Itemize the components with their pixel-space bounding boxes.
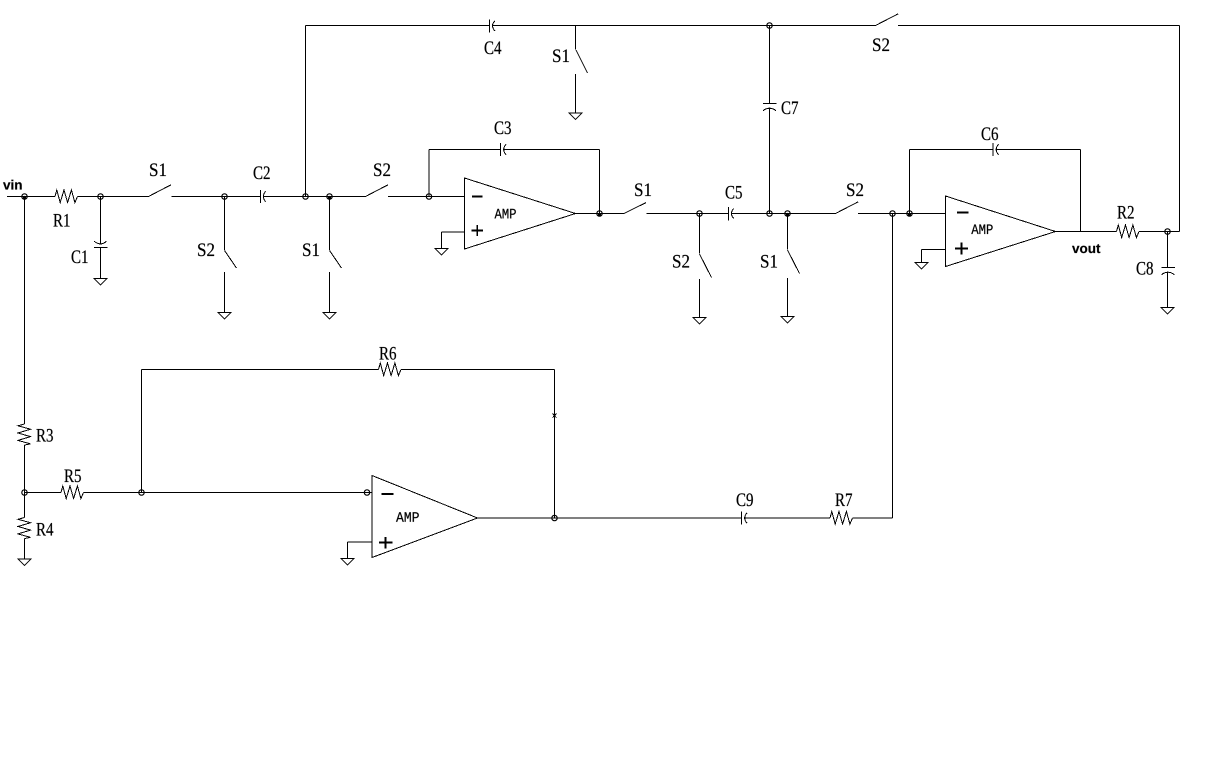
switch S2 (top) xyxy=(876,14,899,26)
U3 AMP label xyxy=(396,512,419,522)
U1 AMP label xyxy=(495,209,516,219)
resistor R1 xyxy=(55,190,78,203)
capacitor C7 xyxy=(763,104,777,111)
label R5 xyxy=(64,470,80,483)
ground (R4) xyxy=(18,559,31,566)
wire C2 to S2 series xyxy=(263,196,365,198)
ground (S2 shunt mid) xyxy=(693,318,706,325)
label C9 xyxy=(737,493,753,506)
ground (C8) xyxy=(1161,308,1174,315)
wire C3 feedback left xyxy=(429,149,501,151)
label C1 xyxy=(72,250,88,263)
resistor R2 xyxy=(1117,225,1140,238)
wire right-side drop to output xyxy=(1179,26,1181,232)
node S1 shunt junction xyxy=(327,194,332,199)
label S1 (shunt mid) xyxy=(761,255,777,268)
ground (C1) xyxy=(94,279,107,286)
wire node to R4 xyxy=(24,493,26,518)
node S1 shunt junction (mid) xyxy=(785,211,790,216)
node amp2 inverting input xyxy=(907,211,912,216)
label C6 xyxy=(982,127,998,140)
node S2 shunt junction (mid) xyxy=(697,211,702,216)
label R3 xyxy=(36,429,52,442)
node amp3 inverting input xyxy=(364,490,369,495)
node U3 output / R6 drop junction xyxy=(552,515,557,520)
switch S2 (shunt) xyxy=(225,197,237,313)
op-amp U3 xyxy=(372,476,478,558)
wire top rail right segment xyxy=(898,25,1180,27)
op-amp U1 xyxy=(465,178,576,249)
wire top rail middle segment xyxy=(493,25,876,27)
wire S2 to amp1 input xyxy=(388,196,465,198)
wire S1 to C2 xyxy=(172,196,261,198)
ground (S1 shunt mid) xyxy=(781,317,794,324)
wire vin drop to R3 xyxy=(24,197,26,425)
wire R6 rail right xyxy=(401,369,555,371)
wire R3 to node xyxy=(24,445,26,493)
node R6 riser junction xyxy=(139,490,144,495)
wire R6 rail left xyxy=(142,369,379,371)
label C5 xyxy=(726,186,742,199)
wire C7 upper stub xyxy=(769,26,771,104)
U3 plus sign xyxy=(379,537,393,549)
capacitor C8 xyxy=(1162,268,1176,275)
wire R6 riser xyxy=(141,370,143,493)
node amp1 inverting input xyxy=(426,194,431,199)
label C3 xyxy=(495,121,511,134)
switch S2 (shunt mid) xyxy=(700,214,712,318)
node A (top rail junction) xyxy=(303,194,308,199)
capacitor C8 stub xyxy=(1167,232,1169,268)
node vin xyxy=(22,194,27,199)
capacitor C1 xyxy=(94,241,108,247)
label R4 xyxy=(36,523,53,536)
U1 minus sign xyxy=(472,196,483,198)
label C2 xyxy=(254,166,270,179)
wire C3 feedback right xyxy=(504,149,600,151)
wire node to R5 xyxy=(25,492,62,494)
node R3/R4/R5 junction xyxy=(22,490,27,495)
capacitor C6 xyxy=(993,143,999,156)
wire R7 riser to main xyxy=(892,214,894,519)
wire R5 to amp3 xyxy=(84,492,373,494)
node S2 shunt junction xyxy=(222,194,227,199)
label S1 (series after amp1) xyxy=(635,183,651,196)
switch S1 (shunt) xyxy=(330,197,342,313)
node U1 output xyxy=(597,211,602,216)
label S2 (shunt) xyxy=(198,243,214,256)
ground (U2 +) xyxy=(915,263,928,270)
capacitor C4 xyxy=(490,20,495,33)
label C7 xyxy=(782,101,798,114)
label vin xyxy=(3,180,22,190)
node R7 riser junction xyxy=(890,211,895,216)
wire C9 to R7 xyxy=(745,517,830,519)
switch S1 (series, input) xyxy=(149,185,172,197)
wire R1 to S1 xyxy=(78,196,149,198)
node C7 junction xyxy=(767,211,772,216)
label R7 xyxy=(835,494,852,506)
label C8 xyxy=(1137,262,1153,275)
resistor R5 xyxy=(61,486,84,499)
label S2 (series) xyxy=(374,163,390,176)
node vout/C8 junction xyxy=(1165,229,1170,234)
U2 AMP label xyxy=(971,224,992,234)
wire U2 output xyxy=(1056,231,1117,233)
label S1 (top switch) xyxy=(553,49,569,62)
wire C6 feedback drop xyxy=(1080,150,1082,232)
U1 plus sign xyxy=(472,225,484,236)
label S1 (shunt) xyxy=(303,243,319,256)
switch S2 (series, before amp1) xyxy=(366,185,389,197)
ground (U3 +) xyxy=(341,559,354,566)
wire U1 noninverting input xyxy=(442,232,465,249)
wire R7 to riser xyxy=(853,517,893,519)
capacitor C2 xyxy=(261,190,266,203)
label C4 xyxy=(485,41,502,54)
wire C1 to ground xyxy=(100,248,102,279)
wire C6 feedback left xyxy=(910,149,994,151)
wire C7 lower stub xyxy=(769,108,771,213)
U2 plus sign xyxy=(955,243,968,255)
label R1 xyxy=(53,214,69,227)
switch S2 (series, before amp2) xyxy=(836,202,859,214)
capacitor C1 stub xyxy=(100,197,102,244)
switch S1 (hanging from top rail) xyxy=(576,26,588,114)
resistor R4 xyxy=(18,518,31,539)
wire top-rail riser to node A xyxy=(305,26,307,197)
wire C5 to S2 series xyxy=(732,213,836,215)
label S2 (shunt mid) xyxy=(673,255,689,268)
label S1 (series input) xyxy=(150,163,166,176)
wire R2 to right drop xyxy=(1139,231,1180,233)
wire U3 output xyxy=(478,517,742,519)
node top-rail/C7 junction xyxy=(767,23,772,28)
node R6 drop marker xyxy=(553,413,557,419)
switch S1 (shunt mid) xyxy=(788,214,800,317)
label vout xyxy=(1072,244,1100,253)
U3 minus sign xyxy=(382,493,394,495)
resistor R6 xyxy=(379,363,402,376)
wire U1 output xyxy=(576,213,625,215)
ground (S1 shunt) xyxy=(323,313,336,320)
label R6 xyxy=(379,347,396,360)
ground (below top S1) xyxy=(569,113,582,120)
wire C6 feedback riser xyxy=(909,150,911,214)
wire R4 to ground xyxy=(24,539,26,560)
capacitor C9 xyxy=(742,512,748,525)
wire S2 to amp2 input xyxy=(858,213,946,215)
switch S1 (series, after amp1) xyxy=(624,203,646,214)
capacitor C3 xyxy=(501,143,507,156)
capacitor C5 xyxy=(729,207,734,221)
wire C3 feedback riser xyxy=(428,150,430,197)
wire C8 to ground xyxy=(1167,272,1169,307)
ground (S2 shunt) xyxy=(218,313,231,320)
wire U2 noninverting input xyxy=(922,250,946,263)
wire C6 feedback right xyxy=(996,149,1080,151)
ground (U1 +) xyxy=(435,249,448,256)
label R2 xyxy=(1117,206,1133,219)
wire R6 drop to output xyxy=(554,370,556,519)
label S2 (series before amp2) xyxy=(847,183,863,196)
U2 minus sign xyxy=(957,212,969,214)
label S2 (top switch) xyxy=(873,38,889,51)
resistor R3 xyxy=(18,424,31,445)
wire top rail left segment xyxy=(306,25,490,27)
op-amp U2 xyxy=(946,196,1056,267)
wire S1 to C5 xyxy=(647,213,729,215)
resistor R7 xyxy=(830,512,853,525)
node R1/C1 junction xyxy=(98,194,103,199)
wire U3 noninverting input xyxy=(348,542,373,559)
wire vin lead xyxy=(7,196,55,198)
wire C3 feedback drop xyxy=(599,150,601,214)
